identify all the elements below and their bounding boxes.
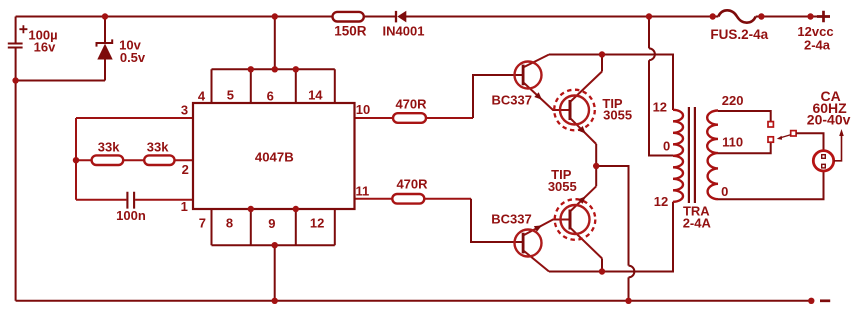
svg-text:7: 7 [199, 216, 206, 231]
svg-text:3055: 3055 [548, 179, 577, 194]
svg-text:14: 14 [308, 88, 323, 103]
svg-text:470R: 470R [395, 97, 427, 112]
svg-text:11: 11 [356, 184, 370, 199]
svg-text:2: 2 [182, 162, 189, 177]
svg-text:1: 1 [181, 199, 188, 214]
svg-text:220: 220 [722, 93, 744, 108]
svg-text:12: 12 [310, 216, 324, 231]
svg-text:110: 110 [722, 135, 743, 150]
svg-text:BC337: BC337 [491, 92, 531, 107]
svg-text:IN4001: IN4001 [383, 23, 425, 38]
svg-text:20-40v: 20-40v [807, 111, 851, 127]
svg-text:33k: 33k [147, 140, 169, 155]
svg-text:4047B: 4047B [255, 150, 294, 165]
svg-text:33k: 33k [98, 140, 120, 155]
svg-text:4: 4 [198, 89, 206, 104]
svg-text:3055: 3055 [603, 107, 632, 122]
svg-text:BC337: BC337 [491, 211, 531, 226]
svg-text:100n: 100n [116, 208, 146, 223]
svg-text:150R: 150R [334, 24, 367, 39]
svg-text:0: 0 [663, 139, 670, 154]
svg-text:10: 10 [356, 102, 370, 117]
svg-text:16v: 16v [34, 40, 56, 55]
svg-text:3: 3 [181, 103, 188, 118]
svg-text:2-4a: 2-4a [804, 38, 831, 53]
svg-text:5: 5 [227, 88, 234, 103]
svg-text:12: 12 [654, 194, 668, 209]
svg-text:6: 6 [267, 89, 274, 104]
svg-text:0.5v: 0.5v [120, 50, 146, 65]
svg-text:470R: 470R [396, 177, 428, 192]
svg-text:8: 8 [226, 216, 233, 231]
svg-text:0: 0 [721, 184, 728, 199]
svg-text:9: 9 [268, 216, 275, 231]
svg-text:2-4A: 2-4A [683, 215, 712, 230]
svg-text:FUS.2-4a: FUS.2-4a [710, 27, 768, 42]
svg-text:12: 12 [653, 100, 667, 115]
